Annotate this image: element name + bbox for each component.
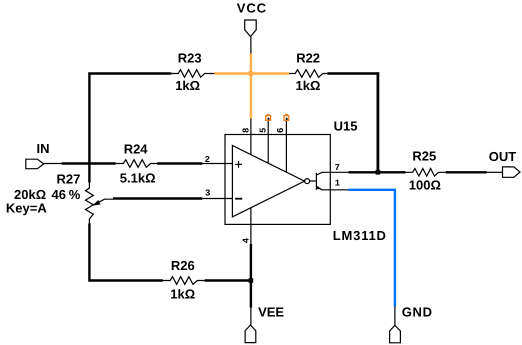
svg-text:8: 8 [241, 128, 251, 133]
wire: blue pin1 to GND [349, 190, 395, 307]
svg-text:%: % [69, 187, 81, 202]
svg-text:7: 7 [335, 163, 340, 173]
output inversion circle [305, 179, 310, 184]
svg-text:R24: R24 [124, 142, 149, 157]
pin 6 line [285, 118, 287, 172]
VEE terminal [250, 308, 252, 326]
wire: R24 to pin2 [157, 162, 202, 164]
pin 4 line [250, 208, 252, 244]
wire: orange VCC horizontal [214, 72, 289, 74]
junction dot output node [376, 170, 381, 175]
GND terminal [394, 307, 396, 326]
svg-text:Key=A: Key=A [6, 201, 47, 216]
VCC terminal [250, 37, 252, 54]
OUT terminal [487, 171, 503, 173]
svg-text:R27: R27 [57, 172, 81, 187]
svg-text:OUT: OUT [489, 149, 517, 164]
svg-text:3: 3 [205, 189, 210, 199]
wire: bottom horizontal R26 right to VEE junction [205, 279, 251, 281]
pin 3 line [202, 198, 232, 200]
unconnected pin 5 marker [266, 116, 271, 121]
svg-text:2: 2 [205, 155, 210, 165]
svg-text:1kΩ: 1kΩ [170, 286, 195, 301]
potentiometer R27 wiper arrow [93, 199, 113, 205]
svg-text:R22: R22 [296, 51, 320, 66]
wire: R25 to OUT [446, 171, 487, 173]
wire: orange VCC vertical [250, 54, 252, 119]
resistor R23 zigzag [171, 70, 214, 78]
svg-text:R26: R26 [171, 258, 195, 273]
op-amp U15 box [225, 135, 330, 225]
svg-text:LM311D: LM311D [333, 228, 387, 243]
potentiometer R27 zigzag (vertical) [86, 183, 94, 224]
svg-text:46: 46 [52, 187, 66, 202]
pin 2 line [202, 163, 232, 165]
wire: IN to R24 [62, 162, 116, 164]
op-amp U15 triangle [232, 146, 304, 217]
pin 1 line [322, 189, 349, 191]
resistor R25 zigzag [406, 169, 446, 177]
output transistor [310, 180, 316, 182]
svg-text:R25: R25 [412, 149, 436, 164]
wire: pin7 to R25 [349, 171, 406, 173]
svg-text:4: 4 [241, 237, 251, 243]
junction dot VEE node [249, 278, 254, 283]
IN terminal [44, 163, 62, 165]
unconnected pin 6 marker [284, 116, 289, 121]
svg-text:1kΩ: 1kΩ [296, 78, 321, 93]
svg-text:1kΩ: 1kΩ [175, 78, 200, 93]
junction dot VCC (orange) [249, 71, 254, 76]
wire: pot wiper to pin3 [113, 197, 202, 199]
svg-text:VEE: VEE [258, 304, 284, 319]
pin 8 line [250, 119, 252, 155]
plus input mark [235, 161, 242, 168]
svg-text:6: 6 [276, 128, 286, 133]
svg-text:GND: GND [402, 305, 433, 320]
pin 7 line [322, 171, 349, 173]
svg-text:100Ω: 100Ω [409, 178, 441, 193]
svg-text:IN: IN [37, 141, 50, 156]
svg-text:R23: R23 [178, 51, 202, 66]
minus input mark [235, 198, 242, 200]
wire: right vertical down to pin7 [376, 72, 379, 172]
resistor R26 zigzag [163, 277, 205, 285]
wire: R22 right to output corner [327, 72, 379, 74]
svg-text:U15: U15 [334, 118, 358, 133]
svg-text:5.1kΩ: 5.1kΩ [120, 171, 156, 186]
resistor R24 zigzag [116, 160, 157, 168]
resistor R22 zigzag [289, 70, 327, 78]
svg-text:VCC: VCC [237, 1, 267, 16]
wire: left vertical + top-left horizontal segment [89, 74, 171, 183]
wire: VEE vertical from pin4 [250, 244, 252, 308]
svg-text:5: 5 [258, 128, 268, 133]
wire: left vertical lower + bottom horizontal to R26 [89, 224, 162, 281]
pin 5 line [267, 118, 269, 163]
svg-text:1: 1 [335, 178, 341, 188]
